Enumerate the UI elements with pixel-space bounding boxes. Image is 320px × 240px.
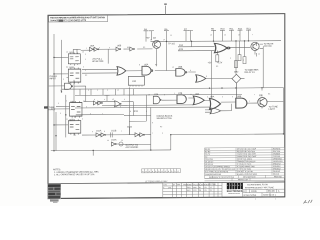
- svg-text:5: 5: [86, 106, 87, 108]
- svg-text:APP: APP: [177, 183, 180, 186]
- svg-text:14: 14: [60, 90, 62, 92]
- svg-text:2. ALL CAPACITANCE VALUES IN U: 2. ALL CAPACITANCE VALUES IN UF 10%: [54, 173, 95, 176]
- svg-text:R3: R3: [127, 47, 129, 49]
- svg-text:3: 3: [120, 106, 121, 108]
- svg-text:INPUT: INPUT: [49, 109, 56, 111]
- svg-text:4: 4: [74, 81, 75, 83]
- svg-text:REFERENCE DESIGNATIONS: REFERENCE DESIGNATIONS: [209, 176, 235, 179]
- svg-text:5: 5: [58, 103, 59, 105]
- svg-text:6: 6: [90, 113, 91, 115]
- svg-text:AFC BOARD: AFC BOARD: [126, 146, 139, 149]
- svg-text:U8A: U8A: [195, 93, 200, 96]
- svg-text:CR2: CR2: [234, 71, 239, 73]
- svg-text:12: 12: [172, 67, 174, 69]
- svg-text:3: 3: [82, 119, 83, 121]
- svg-text:881310: 881310: [273, 174, 279, 176]
- svg-text:INTERFREQUENCY AFC/TUNE: INTERFREQUENCY AFC/TUNE: [245, 186, 275, 189]
- svg-text:U5B: U5B: [178, 67, 183, 69]
- svg-text:1042: 1042: [193, 187, 197, 189]
- svg-text:14: 14: [121, 140, 123, 142]
- svg-text:14: 14: [163, 39, 165, 41]
- svg-text:RL: RL: [199, 187, 201, 189]
- svg-text:3: 3: [88, 90, 89, 92]
- svg-text:AFC BD: AFC BD: [264, 45, 272, 48]
- svg-text:10: 10: [250, 70, 252, 72]
- svg-text:T: T: [241, 185, 242, 187]
- svg-text:5: 5: [222, 96, 223, 98]
- svg-text:5: 5: [243, 60, 244, 62]
- svg-text:TP 101: TP 101: [168, 43, 176, 45]
- svg-text:C2: C2: [66, 67, 68, 69]
- svg-text:3: 3: [232, 96, 233, 98]
- svg-text:5: 5: [66, 100, 67, 102]
- svg-text:5: 5: [92, 131, 93, 133]
- svg-text:N: N: [233, 185, 234, 187]
- svg-text:881309: 881309: [268, 191, 276, 193]
- svg-text:U9B: U9B: [237, 96, 242, 98]
- svg-text:10: 10: [224, 34, 226, 36]
- svg-text:Q2: Q2: [153, 37, 157, 39]
- svg-text:CHASSIS ASSY BD: CHASSIS ASSY BD: [205, 173, 222, 176]
- svg-text:4: 4: [124, 99, 125, 101]
- svg-text:3: 3: [99, 47, 100, 49]
- svg-text:7: 7: [121, 131, 122, 133]
- svg-text:CLEAR/SIGNAL FLOW: CLEAR/SIGNAL FLOW: [247, 183, 268, 186]
- svg-text:U1A: U1A: [70, 51, 75, 54]
- svg-text:PART NO: PART NO: [274, 175, 282, 178]
- svg-text:U6B: U6B: [117, 45, 122, 47]
- svg-text:2: 2: [255, 199, 257, 201]
- svg-text:R3: R3: [85, 75, 87, 77]
- svg-text:9: 9: [164, 94, 165, 96]
- svg-text:4: 4: [97, 90, 98, 92]
- svg-text:3: 3: [107, 90, 108, 92]
- svg-text:1: 1: [275, 198, 277, 200]
- svg-text:U7B: U7B: [178, 93, 183, 95]
- svg-text:DB: DB: [199, 190, 201, 192]
- svg-text:11: 11: [178, 49, 180, 51]
- svg-text:8: 8: [206, 76, 207, 78]
- svg-text:4: 4: [104, 99, 105, 101]
- svg-text:1174: 1174: [193, 190, 197, 192]
- svg-text:8: 8: [130, 111, 131, 113]
- svg-text:C2: C2: [74, 135, 76, 137]
- svg-text:10: 10: [150, 39, 152, 41]
- svg-text:5: 5: [109, 47, 110, 49]
- svg-text:8: 8: [94, 99, 95, 101]
- svg-text:N: N: [238, 185, 239, 187]
- svg-text:13: 13: [112, 99, 114, 101]
- svg-text:3: 3: [63, 79, 64, 81]
- svg-text:7: 7: [102, 113, 103, 115]
- svg-text:U9A: U9A: [210, 95, 215, 98]
- svg-text:5: 5: [60, 113, 61, 115]
- svg-text:4: 4: [85, 59, 86, 61]
- svg-text:R3: R3: [143, 47, 145, 49]
- svg-text:7: 7: [252, 34, 253, 36]
- svg-text:3: 3: [162, 133, 163, 135]
- svg-text:TRANSMITTAL & REVISION RECORD: TRANSMITTAL & REVISION RECORD: [183, 183, 217, 186]
- svg-text:U2A: U2A: [71, 100, 76, 103]
- svg-text:U11B: U11B: [111, 130, 117, 132]
- svg-text:9: 9: [74, 65, 75, 67]
- svg-text:12: 12: [117, 90, 119, 92]
- svg-text:11: 11: [190, 94, 192, 96]
- svg-text:ELECTRONICS: ELECTRONICS: [227, 191, 243, 193]
- svg-text:THIS DWG REVISED TO AGREE WITH: THIS DWG REVISED TO AGREE WITH EQUIP AS …: [50, 16, 105, 19]
- svg-text:U6A: U6A: [90, 44, 95, 47]
- svg-text:A: A: [278, 190, 280, 193]
- svg-text:5/2: 5/2: [210, 190, 212, 192]
- svg-text:9: 9: [152, 122, 153, 124]
- svg-text:SEARCH CTRL: SEARCH CTRL: [157, 117, 173, 120]
- svg-text:10: 10: [258, 54, 260, 56]
- svg-text:8: 8: [139, 64, 140, 66]
- svg-text:11: 11: [66, 119, 68, 121]
- svg-text:R3: R3: [216, 66, 218, 68]
- svg-text:R3: R3: [160, 126, 162, 128]
- svg-text:U10: U10: [132, 81, 137, 83]
- svg-text:1: 1: [86, 48, 87, 50]
- svg-text:7: 7: [254, 94, 255, 96]
- svg-text:1: 1: [249, 101, 250, 103]
- svg-text:R3: R3: [268, 93, 270, 95]
- svg-text:5: 5: [85, 54, 86, 56]
- svg-text:U1B: U1B: [70, 67, 75, 69]
- svg-text:INPUT: INPUT: [50, 78, 57, 80]
- svg-text:13: 13: [148, 94, 150, 96]
- svg-text:OF 2: OF 2: [272, 195, 277, 197]
- svg-text:3: 3: [230, 58, 231, 60]
- svg-text:10: 10: [107, 140, 109, 142]
- svg-text:BOARD, PRINTED WRG: BOARD, PRINTED WRG: [237, 173, 258, 176]
- svg-text:U11A: U11A: [96, 129, 102, 132]
- svg-text:R19: R19: [134, 111, 139, 113]
- svg-text:R3: R3: [155, 64, 157, 66]
- svg-text:3: 3: [83, 67, 84, 69]
- svg-text:3: 3: [74, 117, 75, 119]
- svg-text:8: 8: [104, 131, 105, 133]
- svg-text:PARTS LIST: PARTS LIST: [238, 178, 249, 181]
- svg-text:U5A: U5A: [144, 63, 149, 66]
- svg-text:14: 14: [170, 35, 172, 37]
- svg-text:SCALE NONE: SCALE NONE: [243, 194, 257, 197]
- svg-text:1: 1: [174, 93, 175, 95]
- svg-text:+12V: +12V: [217, 62, 223, 64]
- svg-text:9: 9: [84, 100, 85, 102]
- svg-text:3/75: 3/75: [168, 187, 171, 189]
- svg-text:UP NETWK: UP NETWK: [92, 61, 104, 63]
- svg-text:7: 7: [152, 133, 153, 135]
- svg-text:CHANGED BY ECO 12345 DATED 3/7: CHANGED BY ECO 12345 DATED 3/7/75: [50, 19, 87, 22]
- svg-text:9: 9: [207, 96, 208, 98]
- svg-text:10: 10: [66, 51, 68, 53]
- svg-text:12: 12: [82, 51, 84, 53]
- svg-text:3/7: 3/7: [210, 187, 212, 189]
- svg-text:+5V: +5V: [208, 62, 212, 64]
- svg-text:LIGHT: LIGHT: [269, 109, 276, 111]
- svg-text:9: 9: [190, 70, 191, 72]
- svg-text:U2B: U2B: [70, 119, 75, 121]
- svg-text:23836: 23836: [251, 191, 257, 193]
- svg-text:5: 5: [85, 70, 86, 72]
- svg-text:U7A: U7A: [154, 93, 159, 96]
- svg-text:13: 13: [210, 34, 212, 36]
- svg-text:U12A: U12A: [111, 139, 117, 142]
- svg-text:12: 12: [238, 34, 240, 36]
- svg-text:5: 5: [146, 111, 147, 113]
